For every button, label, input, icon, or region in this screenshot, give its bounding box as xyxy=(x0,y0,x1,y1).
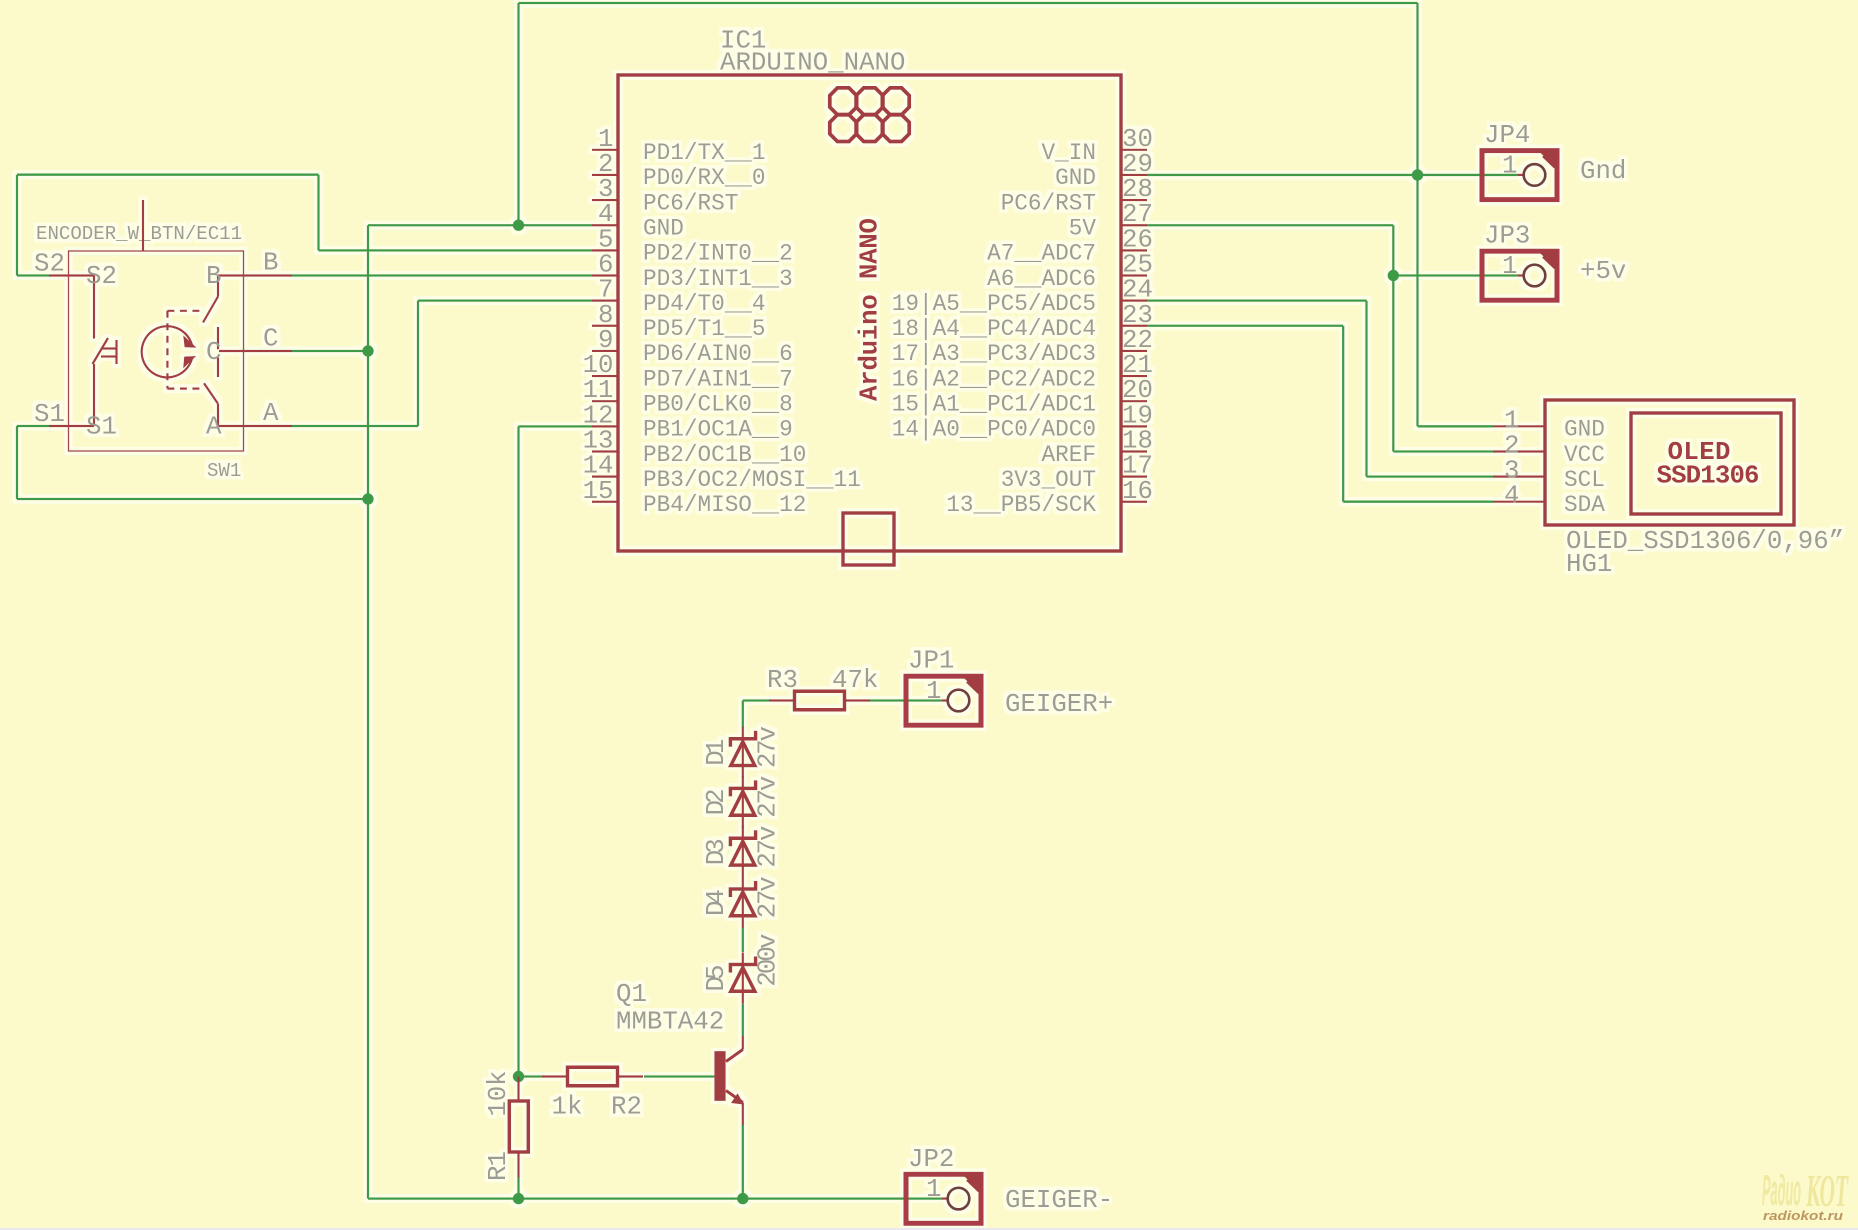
svg-text:PD7/AIN1__7: PD7/AIN1__7 xyxy=(643,366,793,392)
svg-text:15|A1__PC1/ADC1: 15|A1__PC1/ADC1 xyxy=(892,392,1096,418)
svg-text:PD5/T1__5: PD5/T1__5 xyxy=(643,316,766,342)
svg-text:B: B xyxy=(263,249,278,278)
svg-text:27v: 27v xyxy=(754,776,783,818)
svg-text:C: C xyxy=(206,338,221,367)
svg-text:PB1/OC1A__9: PB1/OC1A__9 xyxy=(643,417,793,443)
svg-text:1: 1 xyxy=(1502,151,1517,180)
svg-text:GEIGER+: GEIGER+ xyxy=(1005,690,1113,719)
svg-text:16|A2__PC2/ADC2: 16|A2__PC2/ADC2 xyxy=(892,366,1096,392)
svg-text:S1: S1 xyxy=(86,413,117,442)
svg-text:S1: S1 xyxy=(34,400,65,429)
svg-text:PD2/INT0__2: PD2/INT0__2 xyxy=(643,241,793,267)
svg-text:GND: GND xyxy=(1564,417,1605,443)
svg-text:1: 1 xyxy=(1502,252,1517,281)
svg-text:4: 4 xyxy=(1504,482,1519,511)
svg-text:Arduino NANO: Arduino NANO xyxy=(856,218,885,401)
svg-text:A6__ADC6: A6__ADC6 xyxy=(987,266,1096,292)
svg-text:PB3/OC2/MOSI__11: PB3/OC2/MOSI__11 xyxy=(643,467,861,493)
svg-text:C: C xyxy=(263,325,278,354)
svg-text:13__PB5/SCK: 13__PB5/SCK xyxy=(946,492,1096,518)
svg-text:D4: D4 xyxy=(702,889,731,916)
svg-text:27v: 27v xyxy=(754,826,783,868)
svg-text:1: 1 xyxy=(926,1175,941,1204)
svg-text:PD6/AIN0__6: PD6/AIN0__6 xyxy=(643,341,793,367)
svg-text:B: B xyxy=(206,262,221,291)
svg-text:PD4/T0__4: PD4/T0__4 xyxy=(643,291,766,317)
svg-text:1k: 1k xyxy=(552,1093,583,1122)
svg-text:PC6/RST: PC6/RST xyxy=(643,190,738,216)
svg-text:SSD1306: SSD1306 xyxy=(1657,462,1760,491)
svg-text:+5v: +5v xyxy=(1580,257,1626,286)
svg-text:PD1/TX__1: PD1/TX__1 xyxy=(643,140,766,166)
svg-text:14|A0__PC0/ADC0: 14|A0__PC0/ADC0 xyxy=(892,417,1096,443)
svg-text:18|A4__PC4/ADC4: 18|A4__PC4/ADC4 xyxy=(892,316,1096,342)
svg-text:AREF: AREF xyxy=(1042,442,1096,468)
svg-text:D2: D2 xyxy=(702,788,731,815)
svg-text:47k: 47k xyxy=(832,666,878,695)
svg-text:SW1: SW1 xyxy=(207,460,241,482)
svg-text:A: A xyxy=(206,413,222,442)
svg-text:R1: R1 xyxy=(484,1151,513,1181)
svg-text:Q1: Q1 xyxy=(616,980,647,1009)
svg-text:Gnd: Gnd xyxy=(1580,157,1626,186)
svg-text:GND: GND xyxy=(643,216,684,242)
svg-text:D3: D3 xyxy=(702,838,731,865)
svg-text:5V: 5V xyxy=(1069,216,1097,242)
svg-text:VCC: VCC xyxy=(1564,442,1605,468)
svg-text:ARDUINO_NANO: ARDUINO_NANO xyxy=(720,49,905,78)
svg-text:HG1: HG1 xyxy=(1566,550,1612,579)
svg-text:GEIGER-: GEIGER- xyxy=(1005,1186,1113,1215)
svg-text:JP2: JP2 xyxy=(908,1145,954,1174)
svg-text:10k: 10k xyxy=(484,1071,513,1117)
svg-text:S2: S2 xyxy=(34,250,65,279)
svg-text:27v: 27v xyxy=(754,726,783,768)
svg-text:PB4/MISO__12: PB4/MISO__12 xyxy=(643,492,806,518)
svg-text:JP1: JP1 xyxy=(908,647,954,676)
svg-text:D5: D5 xyxy=(702,965,731,992)
svg-text:16: 16 xyxy=(1122,477,1153,506)
svg-text:radiokot.ru: radiokot.ru xyxy=(1763,1208,1843,1223)
svg-text:V_IN: V_IN xyxy=(1042,140,1096,166)
svg-text:S2: S2 xyxy=(86,262,117,291)
svg-text:PB0/CLK0__8: PB0/CLK0__8 xyxy=(643,392,793,418)
svg-text:27v: 27v xyxy=(754,876,783,918)
svg-text:17|A3__PC3/ADC3: 17|A3__PC3/ADC3 xyxy=(892,341,1096,367)
svg-text:ENCODER_W_BTN/EC11: ENCODER_W_BTN/EC11 xyxy=(36,223,242,245)
svg-text:A: A xyxy=(263,399,279,428)
svg-text:19|A5__PC5/ADC5: 19|A5__PC5/ADC5 xyxy=(892,291,1096,317)
svg-text:PB2/OC1B__10: PB2/OC1B__10 xyxy=(643,442,806,468)
svg-text:1: 1 xyxy=(926,677,941,706)
svg-text:JP4: JP4 xyxy=(1484,121,1530,150)
svg-text:3V3_OUT: 3V3_OUT xyxy=(1001,467,1096,493)
svg-text:R2: R2 xyxy=(611,1093,642,1122)
svg-text:R3: R3 xyxy=(767,666,798,695)
svg-text:A7__ADC7: A7__ADC7 xyxy=(987,241,1096,267)
svg-text:D1: D1 xyxy=(702,739,731,766)
svg-text:PD3/INT1__3: PD3/INT1__3 xyxy=(643,266,793,292)
svg-text:JP3: JP3 xyxy=(1484,222,1530,251)
svg-text:PD0/RX__0: PD0/RX__0 xyxy=(643,165,766,191)
svg-text:SDA: SDA xyxy=(1564,492,1605,518)
svg-text:SCL: SCL xyxy=(1564,467,1605,493)
svg-text:MMBTA42: MMBTA42 xyxy=(616,1008,724,1037)
svg-text:PC6/RST: PC6/RST xyxy=(1001,190,1096,216)
svg-text:GND: GND xyxy=(1055,165,1096,191)
svg-text:15: 15 xyxy=(583,477,614,506)
svg-text:200v: 200v xyxy=(754,934,783,987)
